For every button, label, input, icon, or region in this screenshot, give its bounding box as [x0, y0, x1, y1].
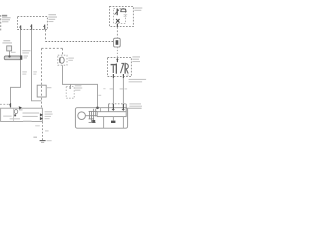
smudge label inside — [124, 14, 128, 15]
junction block J1 (top-left dashed box) — [18, 17, 48, 30]
wire W4 wiper switch pin A down — [112, 78, 114, 104]
label right of D2 — [68, 58, 74, 59]
dashed rail to the right — [46, 41, 114, 43]
wire C2 to splice bar — [9, 51, 11, 57]
capacitor blob — [111, 121, 115, 123]
bottom pins of wiper switch — [113, 74, 123, 78]
contact X symbol — [116, 19, 119, 23]
label right of R1 — [47, 87, 51, 88]
small dashed pod under W3 — [70, 84, 72, 88]
label rows below-right of wiper switch — [129, 79, 147, 80]
tick label on W3 vertical — [98, 95, 101, 96]
pin 1 of J1 — [19, 25, 20, 29]
dashed link path (x=41) resistor chain — [41, 48, 43, 108]
ground lead right of motor box — [128, 107, 142, 109]
dashed lead below table — [42, 122, 44, 140]
label under W3 elbow — [75, 85, 82, 90]
top pin with arrow — [116, 59, 118, 63]
legend text rows — [19, 109, 23, 110]
motor link — [85, 115, 97, 117]
switch blade — [116, 9, 118, 15]
labels right of wiper switch — [132, 56, 140, 57]
legend table bottom-left — [1, 108, 43, 121]
pin 3 of J1 — [43, 25, 44, 30]
wire color labels on W1/W2 — [22, 71, 37, 74]
wire W3 from D2 down then right to motor box — [63, 65, 98, 107]
wires below switch plate — [103, 117, 105, 129]
wire W1 from J1 pin1 down-left — [11, 30, 21, 104]
junction dot C2 wire to bar — [8, 55, 10, 57]
harness boundary dashed line bottom-left — [0, 103, 10, 105]
in-line component D2 (dashed housing with lamp) — [58, 55, 67, 65]
dashed link down into D2 — [62, 48, 64, 55]
label above splice bar right end — [22, 50, 30, 51]
arrow on table right edge row 2 — [40, 117, 43, 120]
inner dashed housing — [114, 9, 126, 24]
pin 2 of J1 — [30, 24, 31, 29]
switch element T — [111, 64, 117, 65]
divider — [13, 108, 15, 121]
pin W5 into park switch — [122, 104, 124, 111]
junction dot W3 into box — [96, 106, 99, 109]
labels right of ignition box — [134, 8, 142, 9]
label above ground lead — [129, 103, 141, 104]
splice label right of cap — [24, 56, 28, 57]
switch element ZR — [121, 63, 124, 73]
connector C1 — [114, 38, 121, 47]
splice bus bar S1 — [4, 56, 20, 60]
dotted wire C1 to wiper switch — [116, 47, 118, 57]
dashed wire D3 from J1 pin3 to connector C1 — [45, 30, 47, 42]
dashed link horizontal y=48 — [42, 47, 63, 49]
label above C2 — [3, 40, 10, 41]
ignition switch box (top-right dashed) — [110, 7, 134, 27]
inner chamber wall — [99, 108, 101, 112]
motor M — [78, 112, 86, 120]
wire W5 wiper switch pin B down — [122, 78, 124, 104]
arrow on table right edge row 1 — [40, 113, 43, 116]
label on dashed lead — [45, 130, 49, 131]
switch plate bar — [97, 112, 126, 117]
wiper motor assembly box — [75, 108, 127, 129]
wiper switch box (middle-right dashed) — [108, 58, 132, 77]
resistor R1 in dashed link — [37, 85, 46, 97]
legend icon — [14, 110, 17, 114]
fusible link connector C2 — [7, 46, 12, 51]
splice end cap on W1 — [20, 55, 22, 59]
label right of C2 wire — [11, 52, 16, 53]
coil arc symbol — [121, 9, 126, 12]
terminal pin at end of W1 — [9, 103, 10, 107]
wire color labels on W4/W5 — [110, 88, 113, 89]
labels right of J1 — [48, 14, 57, 22]
labels right of legend table — [45, 111, 53, 119]
bottom pin of ignition box — [116, 24, 118, 27]
label text block top-left (fuse panel note) — [2, 15, 11, 23]
pin W4 into park switch — [112, 104, 114, 111]
ground G1 — [40, 140, 46, 142]
box edge at left margin (cropped dashed box) — [0, 15, 2, 32]
arrow glyph above icon — [19, 106, 22, 109]
brush grid — [89, 109, 98, 123]
dashed wire below ignition box — [116, 27, 118, 38]
wire W2 from J1 pin2 down to resistor link — [32, 30, 42, 101]
park switch housing (inner box) — [108, 104, 110, 112]
